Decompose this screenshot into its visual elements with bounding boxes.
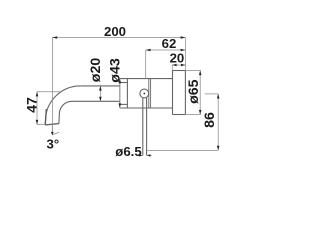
svg-text:20: 20 bbox=[170, 51, 185, 66]
wire spout collar top bbox=[120, 82, 128, 84]
wire spout outlet outer edge emphasis bbox=[45, 109, 46, 125]
wire spout inner bend bbox=[59, 101, 72, 123]
wire 3deg leader line bbox=[51, 126, 53, 133]
wire body bottom edge bbox=[120, 107, 173, 109]
wire dim d20 line bbox=[99, 85, 101, 102]
wire dim 62 extension bbox=[145, 50, 147, 79]
wire spout collar bottom bbox=[120, 103, 128, 105]
node dim d65 bottom arrow bbox=[199, 110, 202, 115]
wire dim 20 line bbox=[172, 64, 185, 66]
svg-text:62: 62 bbox=[162, 36, 177, 51]
node dim d20 bottom arrow bbox=[99, 97, 102, 102]
wire handle rod right edge bbox=[146, 98, 148, 156]
node 3deg arrowhead bbox=[51, 132, 54, 136]
node dim 62 left arrow bbox=[146, 49, 151, 52]
wire dim 6.5 right arrow tail bbox=[147, 154, 152, 156]
wire flange top edge bbox=[173, 70, 186, 72]
wire dim 47 line bbox=[36, 92, 38, 125]
node dim 47 top arrow bbox=[36, 92, 39, 97]
wire dim d65 top extension bbox=[185, 70, 200, 72]
svg-text:3°: 3° bbox=[46, 137, 59, 152]
node dim 47 bottom arrow bbox=[36, 120, 39, 125]
wire body cartridge collar line 1 bbox=[148, 79, 150, 108]
wire body front edge bbox=[126, 79, 128, 108]
wire body cartridge collar line 2 bbox=[150, 79, 152, 108]
wire flange bottom edge bbox=[173, 114, 186, 116]
wire dim 86 line bbox=[217, 94, 219, 150]
svg-text:ø65: ø65 bbox=[186, 79, 202, 104]
wire spout tube top edge bbox=[80, 85, 120, 87]
svg-text:86: 86 bbox=[202, 112, 218, 128]
wire dim 20 extension bbox=[171, 65, 173, 71]
svg-text:47: 47 bbox=[25, 97, 41, 113]
wire spout mouth bbox=[45, 124, 59, 125]
wire body top edge bbox=[120, 78, 173, 80]
wire dim 200 left extension / outlet axis bbox=[51, 38, 53, 134]
wire spout outer bend bbox=[45, 86, 80, 125]
node dim d43 bottom arrow bbox=[119, 103, 122, 108]
node pivot circle bbox=[140, 89, 149, 98]
node dim 20 left arrow bbox=[172, 64, 176, 67]
svg-text:200: 200 bbox=[104, 24, 126, 39]
wire flange left edge bbox=[172, 71, 174, 115]
wire dim 47 top extension bbox=[37, 91, 60, 93]
wire dim 86 top extension bbox=[205, 93, 219, 95]
node dim 62 right arrow bbox=[181, 49, 186, 52]
node dim 200 right arrow bbox=[181, 36, 186, 39]
wire dim d43 line bbox=[119, 79, 121, 108]
wire handle rod left edge bbox=[142, 98, 144, 156]
wire spout tube bottom edge bbox=[72, 100, 120, 102]
wire wall line / flange right edge bbox=[184, 71, 186, 115]
wire wall extension line bbox=[184, 38, 186, 71]
node dim 20 right arrow bbox=[181, 64, 185, 67]
node dim 200 left arrow bbox=[52, 36, 57, 39]
svg-text:ø43: ø43 bbox=[107, 58, 123, 83]
svg-text:ø6.5: ø6.5 bbox=[115, 144, 141, 159]
node dim 6.5 right arrow bbox=[147, 154, 151, 156]
wire dim 47 bottom extension bbox=[37, 124, 45, 126]
node dim d20 top arrow bbox=[99, 86, 102, 91]
node dim 86 top arrow bbox=[217, 94, 220, 99]
node dim d65 top arrow bbox=[199, 71, 202, 76]
wire dim 6.5 left arrow tail bbox=[138, 154, 142, 156]
wire dim 62 line bbox=[146, 49, 186, 51]
svg-text:ø20: ø20 bbox=[88, 58, 104, 83]
wire 3deg diagonal tick bbox=[52, 132, 59, 134]
node dim 6.5 left arrow bbox=[139, 154, 143, 156]
node dim d43 top arrow bbox=[119, 79, 122, 84]
wire dim 200 line bbox=[52, 37, 185, 39]
node pivot center dot bbox=[143, 93, 145, 95]
node dim 86 bottom arrow bbox=[217, 146, 220, 151]
wire spout collar left edge bbox=[119, 83, 121, 105]
wire dim 86 bottom extension / handle tip line bbox=[148, 149, 219, 151]
wire dim d65 bottom extension bbox=[185, 114, 200, 116]
wire dim d65 line bbox=[199, 71, 201, 115]
